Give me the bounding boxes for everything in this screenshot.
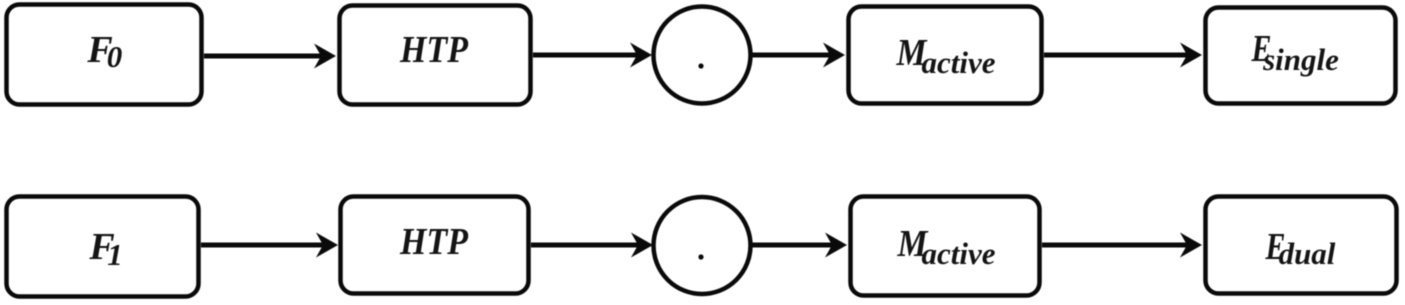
svg-text:dual: dual <box>1279 236 1336 271</box>
svg-text:HTP: HTP <box>399 29 469 71</box>
svg-text:0: 0 <box>107 39 123 74</box>
svg-text:HTP: HTP <box>399 221 469 263</box>
svg-text:1: 1 <box>107 237 123 272</box>
svg-text:active: active <box>921 45 995 80</box>
svg-text:single: single <box>1262 42 1339 77</box>
svg-text:active: active <box>921 236 995 271</box>
